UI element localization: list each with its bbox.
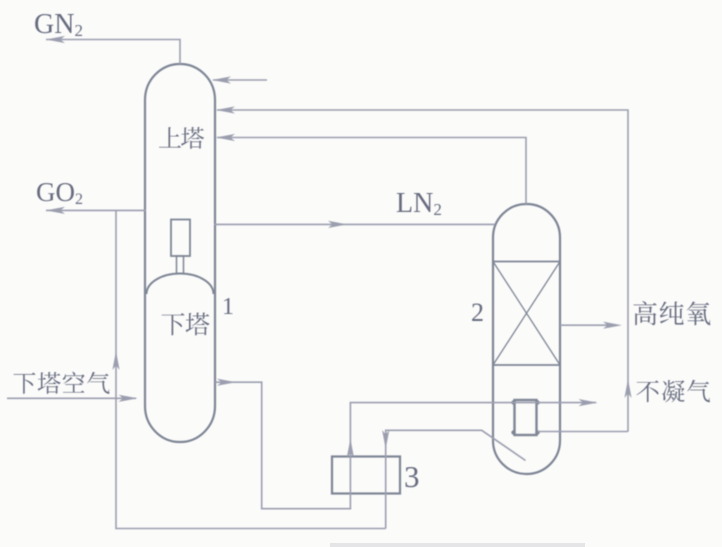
svg-text:3: 3 — [404, 459, 420, 494]
svg-text:1: 1 — [222, 294, 234, 320]
svg-text:2: 2 — [471, 298, 484, 327]
